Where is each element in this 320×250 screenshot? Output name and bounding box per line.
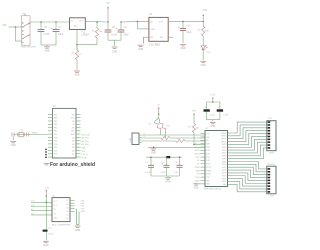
svg-text:SDA: SDA bbox=[196, 169, 201, 172]
svg-text:VCC: VCC bbox=[54, 201, 58, 203]
svg-text:C6: C6 bbox=[124, 27, 128, 29]
svg-text:D6: D6 bbox=[66, 204, 68, 206]
svg-text:U3: U3 bbox=[149, 14, 153, 16]
svg-text:U2: U2 bbox=[205, 128, 209, 130]
svg-text:1uF: 1uF bbox=[174, 172, 178, 174]
svg-text:MTDI: MTDI bbox=[206, 164, 211, 166]
svg-text:IO33: IO33 bbox=[206, 160, 210, 162]
svg-text:D4: D4 bbox=[66, 211, 68, 213]
svg-text:ESP-WROOM-32: ESP-WROOM-32 bbox=[204, 189, 222, 191]
svg-text:5V: 5V bbox=[157, 105, 160, 107]
svg-text:10uF: 10uF bbox=[124, 34, 130, 36]
svg-text:MTCK: MTCK bbox=[206, 167, 212, 169]
svg-text:For arduino_shield: For arduino_shield bbox=[50, 162, 95, 168]
svg-text:GND: GND bbox=[112, 52, 117, 54]
svg-text:C7: C7 bbox=[58, 27, 62, 29]
svg-text:JP3: JP3 bbox=[270, 196, 275, 198]
svg-text:GN: GN bbox=[72, 121, 75, 123]
svg-text:GP18: GP18 bbox=[222, 161, 226, 163]
svg-text:EN: EN bbox=[150, 37, 153, 39]
svg-text:A1: A1 bbox=[72, 149, 74, 152]
svg-text:0.1uF: 0.1uF bbox=[210, 114, 216, 116]
svg-text:SVP: SVP bbox=[206, 143, 210, 145]
svg-text:PD6: PD6 bbox=[54, 137, 57, 139]
svg-text:A4_S: A4_S bbox=[195, 142, 200, 145]
svg-text:MTMS: MTMS bbox=[206, 170, 212, 172]
svg-text:A2: A2 bbox=[72, 146, 74, 149]
svg-text:IC1: IC1 bbox=[82, 32, 86, 34]
svg-text:5V: 5V bbox=[107, 2, 110, 5]
svg-text:RXD0: RXD0 bbox=[194, 180, 199, 182]
svg-text:5V: 5V bbox=[72, 124, 75, 126]
svg-text:CH2: CH2 bbox=[81, 203, 85, 205]
svg-text:NR: NR bbox=[160, 37, 163, 39]
svg-text:D3: D3 bbox=[66, 215, 68, 217]
svg-text:GP19: GP19 bbox=[222, 164, 226, 166]
svg-text:OUT: OUT bbox=[79, 20, 84, 22]
svg-text:GP12: GP12 bbox=[222, 144, 226, 146]
svg-text:GP21: GP21 bbox=[222, 167, 226, 169]
svg-text:GND: GND bbox=[193, 187, 198, 189]
svg-text:MISO: MISO bbox=[195, 150, 200, 152]
svg-text:GP22: GP22 bbox=[222, 170, 226, 172]
svg-text:C15: C15 bbox=[48, 228, 53, 230]
svg-text:PD2: PD2 bbox=[54, 150, 57, 152]
svg-text:3.3V: 3.3V bbox=[211, 94, 216, 96]
svg-text:IN: IN bbox=[71, 20, 74, 22]
svg-text:0.1uF: 0.1uF bbox=[223, 114, 229, 116]
svg-text:GND: GND bbox=[206, 184, 211, 186]
svg-text:SCK: SCK bbox=[54, 205, 58, 207]
svg-text:16MHz: 16MHz bbox=[32, 133, 38, 135]
svg-text:Q1: Q1 bbox=[21, 130, 25, 132]
svg-text:CH3: CH3 bbox=[81, 206, 85, 208]
svg-text:3.3V: 3.3V bbox=[202, 9, 207, 12]
svg-text:C5: C5 bbox=[161, 162, 165, 164]
svg-text:GP26: GP26 bbox=[222, 178, 226, 180]
svg-text:INT: INT bbox=[196, 164, 200, 166]
svg-text:CS: CS bbox=[197, 160, 200, 162]
svg-text:PD5: PD5 bbox=[54, 141, 57, 143]
svg-text:R9: R9 bbox=[149, 124, 152, 126]
svg-text:GND: GND bbox=[180, 48, 185, 50]
svg-text:A2_SIG: A2_SIG bbox=[82, 140, 89, 143]
svg-text:A5_S: A5_S bbox=[195, 146, 200, 149]
svg-text:PWM: PWM bbox=[195, 167, 200, 169]
svg-text:A4: A4 bbox=[72, 140, 74, 143]
svg-text:IO34: IO34 bbox=[206, 150, 210, 152]
svg-text:330: 330 bbox=[205, 30, 209, 32]
svg-text:U4: U4 bbox=[52, 195, 56, 197]
svg-text:PB3: PB3 bbox=[54, 121, 57, 123]
svg-text:R10: R10 bbox=[167, 126, 172, 128]
svg-text:IO35: IO35 bbox=[206, 154, 210, 156]
svg-text:AD0_SIG: AD0_SIG bbox=[82, 133, 91, 136]
svg-text:A3_SIG: A3_SIG bbox=[82, 143, 89, 146]
svg-text:PD1: PD1 bbox=[54, 154, 57, 156]
svg-text:13: 13 bbox=[73, 157, 75, 159]
svg-text:GND: GND bbox=[81, 211, 86, 213]
svg-text:GND: GND bbox=[74, 75, 79, 77]
svg-text:PB2: PB2 bbox=[54, 124, 57, 126]
svg-text:GP14: GP14 bbox=[222, 150, 226, 152]
svg-text:GND: GND bbox=[201, 65, 206, 67]
svg-text:3.3V_REG: 3.3V_REG bbox=[149, 43, 161, 46]
svg-text:LED: LED bbox=[207, 52, 212, 54]
svg-text:MOSI: MOSI bbox=[82, 157, 88, 159]
svg-text:TXD0: TXD0 bbox=[195, 177, 200, 179]
svg-text:ARF: ARF bbox=[71, 133, 74, 136]
svg-text:VIN: VIN bbox=[72, 114, 76, 116]
svg-text:EN: EN bbox=[206, 140, 209, 142]
svg-text:GP17: GP17 bbox=[222, 158, 226, 160]
svg-text:GND: GND bbox=[151, 152, 156, 154]
svg-text:PB5: PB5 bbox=[54, 114, 57, 116]
svg-text:MOSI: MOSI bbox=[195, 154, 200, 156]
svg-text:USB: USB bbox=[130, 137, 132, 142]
svg-text:A0: A0 bbox=[72, 153, 74, 156]
svg-text:GND: GND bbox=[150, 29, 155, 31]
svg-text:R5: R5 bbox=[72, 53, 76, 55]
svg-text:R4: R4 bbox=[92, 30, 96, 32]
svg-text:GND: GND bbox=[54, 218, 59, 220]
svg-text:D13_S: D13_S bbox=[82, 154, 89, 156]
svg-text:OUT: OUT bbox=[159, 21, 164, 23]
svg-text:1k: 1k bbox=[79, 54, 82, 56]
svg-text:MTDO: MTDO bbox=[206, 174, 212, 176]
svg-text:R6: R6 bbox=[188, 126, 191, 128]
svg-text:3.3V: 3.3V bbox=[192, 111, 197, 113]
svg-text:VCC: VCC bbox=[31, 201, 36, 203]
svg-text:GPIO2: GPIO2 bbox=[221, 136, 226, 138]
svg-text:IN: IN bbox=[150, 21, 153, 23]
svg-text:C2: C2 bbox=[217, 107, 219, 109]
svg-text:D5: D5 bbox=[66, 207, 68, 209]
svg-text:C9: C9 bbox=[112, 27, 116, 29]
svg-text:SVN: SVN bbox=[206, 147, 210, 149]
svg-text:IO32: IO32 bbox=[206, 157, 210, 159]
svg-text:GND: GND bbox=[75, 230, 80, 232]
svg-text:CS: CS bbox=[54, 213, 57, 215]
svg-text:A1_SIG: A1_SIG bbox=[82, 137, 89, 140]
svg-text:0.1uF: 0.1uF bbox=[48, 234, 54, 236]
svg-text:SCK: SCK bbox=[196, 157, 201, 159]
svg-text:OUTPUT: OUTPUT bbox=[267, 164, 276, 166]
svg-text:GND: GND bbox=[210, 126, 215, 128]
svg-text:GND: GND bbox=[206, 137, 211, 139]
svg-text:GPIO4: GPIO4 bbox=[221, 138, 226, 140]
svg-text:D7: D7 bbox=[66, 200, 68, 202]
svg-text:240: 240 bbox=[99, 31, 103, 33]
svg-text:D2: D2 bbox=[66, 218, 68, 220]
svg-text:A3: A3 bbox=[72, 143, 74, 146]
svg-text:SWITCH-DPDT: SWITCH-DPDT bbox=[21, 47, 37, 49]
svg-text:0.1uF: 0.1uF bbox=[44, 34, 50, 36]
svg-text:JP2: JP2 bbox=[268, 118, 273, 120]
svg-text:GND: GND bbox=[223, 184, 228, 186]
svg-text:IO0: IO0 bbox=[196, 174, 199, 176]
svg-text:GND: GND bbox=[43, 245, 48, 247]
svg-text:0.1uF: 0.1uF bbox=[111, 34, 117, 36]
svg-text:GND: GND bbox=[44, 50, 49, 52]
svg-text:CH4: CH4 bbox=[81, 209, 85, 211]
svg-text:PD4: PD4 bbox=[54, 144, 57, 146]
svg-text:RST: RST bbox=[71, 131, 74, 133]
svg-text:GP15: GP15 bbox=[222, 153, 226, 155]
svg-text:GND: GND bbox=[138, 49, 143, 51]
svg-text:RXD: RXD bbox=[206, 180, 210, 182]
svg-text:C8: C8 bbox=[44, 27, 48, 29]
svg-text:A5: A5 bbox=[72, 136, 74, 139]
svg-text:PD3: PD3 bbox=[54, 147, 57, 149]
svg-text:GND: GND bbox=[11, 145, 16, 147]
svg-text:JP1: JP1 bbox=[53, 106, 58, 108]
svg-text:VIN: VIN bbox=[2, 23, 6, 27]
svg-text:10uF: 10uF bbox=[160, 172, 166, 174]
svg-text:GPIO5: GPIO5 bbox=[221, 141, 226, 143]
svg-text:C1: C1 bbox=[204, 107, 206, 109]
svg-text:GND: GND bbox=[165, 181, 170, 183]
svg-text:PD0: PD0 bbox=[54, 157, 57, 159]
svg-text:GP27: GP27 bbox=[222, 181, 226, 183]
svg-text:GND: GND bbox=[71, 118, 76, 120]
svg-text:PB1: PB1 bbox=[54, 127, 57, 129]
svg-text:SO: SO bbox=[54, 209, 57, 211]
svg-text:GP16: GP16 bbox=[222, 156, 226, 158]
svg-text:D+: D+ bbox=[144, 133, 146, 135]
svg-text:10k: 10k bbox=[196, 127, 199, 129]
svg-text:LM1117: LM1117 bbox=[82, 35, 91, 37]
svg-text:C16: C16 bbox=[186, 26, 191, 28]
svg-text:C6: C6 bbox=[174, 162, 178, 164]
svg-text:ADJ: ADJ bbox=[74, 24, 78, 27]
svg-text:3V3: 3V3 bbox=[71, 127, 74, 129]
svg-text:ADC_CONVERTER: ADC_CONVERTER bbox=[52, 223, 71, 226]
svg-text:PB4: PB4 bbox=[54, 118, 57, 120]
svg-text:R2: R2 bbox=[198, 29, 202, 31]
svg-text:C4: C4 bbox=[145, 162, 149, 164]
svg-text:SCL: SCL bbox=[82, 151, 87, 153]
svg-text:TXD: TXD bbox=[206, 177, 210, 179]
svg-text:GPIO0: GPIO0 bbox=[221, 133, 226, 135]
svg-text:0.1uF: 0.1uF bbox=[145, 172, 151, 174]
svg-text:10uF: 10uF bbox=[186, 32, 192, 34]
svg-text:VCC: VCC bbox=[206, 133, 210, 135]
svg-text:PD7: PD7 bbox=[54, 134, 57, 136]
svg-text:10uF: 10uF bbox=[58, 34, 64, 36]
svg-text:GP23: GP23 bbox=[222, 173, 226, 175]
svg-text:SDA: SDA bbox=[82, 147, 87, 150]
svg-text:GP25: GP25 bbox=[222, 176, 226, 178]
svg-text:GPIO: GPIO bbox=[269, 153, 274, 155]
svg-text:3.3V: 3.3V bbox=[45, 188, 50, 190]
svg-text:PB0: PB0 bbox=[54, 131, 57, 133]
svg-text:GP13: GP13 bbox=[222, 147, 226, 149]
